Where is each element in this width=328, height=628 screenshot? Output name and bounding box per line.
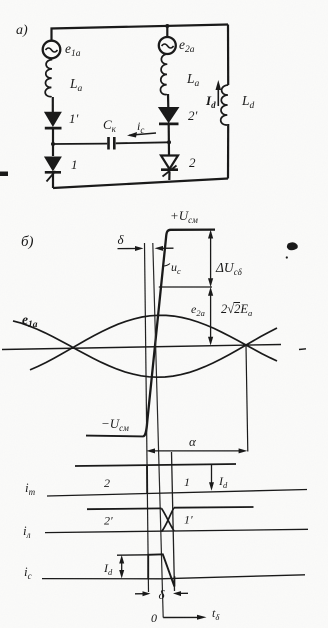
dimension 2sqrt2Ea bbox=[208, 287, 213, 346]
leader uc bbox=[163, 264, 170, 267]
arrows delta top bbox=[118, 246, 174, 251]
crossing X fall bbox=[162, 508, 175, 531]
node B bbox=[167, 140, 171, 144]
trace il axis bbox=[45, 529, 308, 532]
arrow ic bbox=[127, 132, 156, 138]
wire right branch bbox=[227, 25, 229, 86]
sine axis bbox=[2, 345, 281, 350]
arrow Id it bbox=[209, 465, 214, 491]
timing line B bbox=[153, 243, 163, 618]
inductor La right bbox=[160, 54, 167, 95]
timing line C bbox=[172, 452, 175, 591]
trace ic axis bbox=[42, 575, 305, 579]
dimension dUcd bbox=[208, 230, 213, 287]
tick Id ic top bbox=[117, 554, 148, 556]
source e1a bbox=[43, 41, 61, 59]
dimension alpha bbox=[146, 448, 247, 453]
timing line A bbox=[145, 243, 149, 592]
stray dash right bbox=[299, 348, 306, 351]
ink blob right bbox=[287, 242, 298, 250]
trace il level left bbox=[87, 507, 162, 510]
dimension Id ic bbox=[119, 555, 124, 579]
wire stub source 2 bbox=[166, 26, 168, 37]
wire bottom bbox=[53, 179, 228, 189]
radical bar bbox=[234, 302, 241, 304]
wire top bbox=[52, 25, 229, 42]
arrow Id circuit bbox=[216, 80, 222, 106]
thyristor 2 bbox=[161, 156, 178, 177]
wire La2 to thyristor 2' bbox=[167, 94, 170, 108]
thyristor 1' bbox=[45, 112, 62, 128]
ic pulse bbox=[148, 554, 174, 586]
timing line D alpha right bbox=[246, 346, 248, 452]
wire Ld to bottom bbox=[227, 124, 229, 179]
curve uc rise with +Ucm level bbox=[143, 230, 215, 437]
line level 2sqrt2Ea top bbox=[159, 286, 212, 288]
arrows delta bottom bbox=[135, 591, 188, 596]
source e2a bbox=[159, 37, 176, 54]
thyristor 2' bbox=[159, 108, 179, 124]
wire La1 to thyristor 1' bbox=[52, 97, 54, 112]
node top junction bbox=[165, 24, 169, 28]
trace il level right bbox=[174, 506, 254, 509]
t axis bbox=[163, 615, 206, 620]
wire thyristor 2 to bottom bbox=[168, 172, 170, 180]
wire capacitor branch bbox=[53, 142, 169, 144]
node A bbox=[51, 142, 55, 146]
wire thyristor 1 to bottom bbox=[52, 173, 54, 188]
line -Ucm level bbox=[86, 435, 143, 438]
trace it fall bbox=[146, 466, 148, 494]
wire thyristor 1' to node A bbox=[52, 129, 54, 157]
left edge mark bbox=[0, 172, 8, 177]
sine e1a curve bbox=[30, 315, 277, 370]
ink dot right bbox=[286, 256, 288, 258]
crossing X rise bbox=[162, 508, 175, 532]
scan noise overlay bbox=[0, 0, 1, 1]
wire thyristor 2' to node B bbox=[168, 125, 171, 156]
sine e2a curve bbox=[13, 321, 277, 377]
thyristor 1 bbox=[45, 157, 61, 182]
trace it axis bbox=[47, 490, 307, 497]
inductor La left bbox=[45, 60, 52, 98]
inductor Ld bbox=[221, 85, 229, 125]
capacitor Ck bbox=[109, 137, 115, 150]
trace it pulse top bbox=[75, 464, 236, 466]
